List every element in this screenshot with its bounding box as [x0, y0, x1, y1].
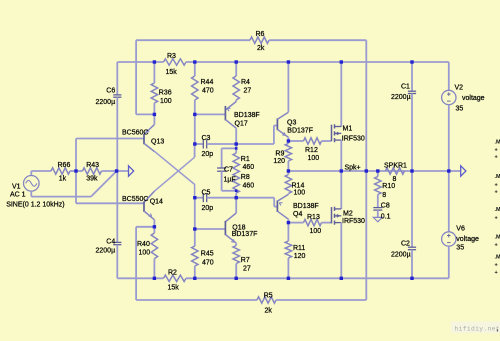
svg-text:C8: C8 — [381, 202, 390, 209]
svg-text:C2: C2 — [401, 240, 410, 247]
svg-text:R7: R7 — [241, 257, 250, 264]
svg-text:R5: R5 — [264, 293, 273, 300]
svg-text:Q3: Q3 — [287, 120, 296, 127]
svg-text:.M: .M — [495, 235, 500, 241]
svg-text:27: 27 — [243, 266, 251, 273]
svg-text:R4: R4 — [241, 79, 250, 86]
svg-text:,: , — [496, 326, 498, 333]
svg-text:R43: R43 — [86, 162, 99, 169]
svg-text:460: 460 — [243, 164, 255, 171]
svg-text:Q17: Q17 — [235, 121, 248, 128]
svg-text:R13: R13 — [307, 214, 320, 221]
svg-text:AC 1: AC 1 — [10, 192, 26, 199]
svg-text:+: + — [495, 190, 498, 196]
svg-text:15k: 15k — [168, 285, 180, 292]
svg-text:R66: R66 — [58, 162, 71, 169]
svg-text:R36: R36 — [159, 90, 172, 97]
svg-text:35: 35 — [456, 106, 464, 113]
svg-text:.M: .M — [495, 174, 500, 180]
svg-text:M1: M1 — [343, 126, 353, 133]
svg-text:.M: .M — [495, 207, 500, 213]
svg-text:100: 100 — [308, 155, 320, 162]
svg-text:100: 100 — [310, 228, 322, 235]
svg-text:R3: R3 — [167, 53, 176, 60]
svg-text:2k: 2k — [265, 308, 273, 315]
svg-text:C4: C4 — [106, 239, 115, 246]
svg-text:27: 27 — [244, 88, 252, 95]
svg-text:1µF: 1µF — [224, 177, 236, 184]
svg-text:+: + — [495, 148, 498, 154]
svg-text:2200µ: 2200µ — [391, 94, 411, 101]
svg-text:BD137F: BD137F — [287, 128, 313, 135]
svg-text:voltage: voltage — [456, 236, 479, 243]
svg-text:BD137F: BD137F — [232, 231, 258, 238]
svg-text:120: 120 — [273, 158, 285, 165]
svg-text:8: 8 — [393, 176, 397, 183]
svg-text:+: + — [495, 155, 498, 161]
svg-text:R1: R1 — [241, 156, 250, 163]
svg-text:R2: R2 — [168, 270, 177, 277]
svg-text:20p: 20p — [202, 205, 214, 212]
svg-text:IRF530: IRF530 — [342, 218, 365, 225]
svg-text:SINE(0 1.2 10kHz): SINE(0 1.2 10kHz) — [6, 202, 64, 209]
svg-text:Spk+: Spk+ — [345, 165, 361, 172]
svg-text:R6: R6 — [256, 31, 265, 38]
svg-text:BC560C: BC560C — [122, 129, 148, 136]
svg-text:100: 100 — [294, 190, 306, 197]
svg-text:SPKR1: SPKR1 — [384, 162, 407, 169]
svg-text:C5: C5 — [202, 190, 211, 197]
svg-text:hifidiy.net: hifidiy.net — [455, 326, 500, 333]
svg-text:C3: C3 — [202, 135, 211, 142]
svg-text:Q13: Q13 — [151, 139, 164, 146]
svg-text:8: 8 — [382, 192, 386, 199]
svg-text:39k: 39k — [86, 176, 98, 183]
svg-text:R14: R14 — [292, 183, 305, 190]
svg-text:R44: R44 — [201, 79, 214, 86]
svg-text:120: 120 — [294, 253, 306, 260]
svg-text:M2: M2 — [343, 211, 353, 218]
svg-text:BD138F: BD138F — [293, 203, 319, 210]
svg-text:35: 35 — [456, 245, 464, 252]
svg-text:R45: R45 — [201, 251, 214, 258]
svg-text:C7: C7 — [224, 167, 233, 174]
svg-text:BC550C: BC550C — [122, 196, 148, 203]
svg-text:0.1: 0.1 — [381, 214, 391, 221]
svg-text:+: + — [495, 216, 498, 222]
svg-text:Q4: Q4 — [293, 211, 302, 218]
svg-text:IRF530: IRF530 — [342, 136, 365, 143]
svg-text:V2: V2 — [455, 85, 464, 92]
svg-text:+: + — [495, 243, 498, 249]
svg-text:R11: R11 — [293, 245, 305, 252]
svg-text:R12: R12 — [305, 147, 318, 154]
svg-text:V6: V6 — [456, 226, 465, 233]
svg-text:2k: 2k — [257, 45, 265, 52]
svg-text:C1: C1 — [401, 83, 410, 90]
svg-text:Q14: Q14 — [150, 199, 163, 206]
svg-text:+: + — [495, 270, 498, 276]
svg-text:.M: .M — [495, 140, 500, 146]
svg-text:20p: 20p — [202, 151, 214, 158]
svg-text:+: + — [495, 183, 498, 189]
svg-text:R9: R9 — [275, 151, 284, 158]
svg-text:BD138F: BD138F — [234, 112, 260, 119]
svg-text:15k: 15k — [166, 69, 178, 76]
svg-text:2200µ: 2200µ — [96, 248, 116, 255]
svg-text:voltage: voltage — [462, 95, 485, 102]
svg-text:C6: C6 — [106, 88, 115, 95]
svg-text:470: 470 — [202, 260, 214, 267]
svg-text:.M: .M — [495, 255, 500, 261]
svg-text:+: + — [495, 263, 498, 269]
svg-text:2200µ: 2200µ — [391, 252, 411, 259]
svg-text:2200µ: 2200µ — [96, 99, 116, 106]
svg-text:R10: R10 — [382, 183, 395, 190]
svg-text:V1: V1 — [12, 184, 21, 191]
svg-text:100: 100 — [160, 98, 172, 105]
svg-text:1k: 1k — [59, 176, 67, 183]
svg-text:460: 460 — [243, 183, 255, 190]
svg-text:470: 470 — [202, 88, 214, 95]
svg-text:R8: R8 — [241, 174, 250, 181]
svg-text:100: 100 — [139, 250, 151, 257]
svg-text:R40: R40 — [137, 241, 150, 248]
